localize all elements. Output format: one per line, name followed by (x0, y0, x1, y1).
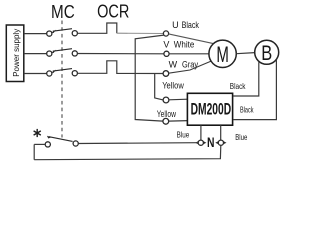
svg-text:MC: MC (51, 2, 75, 22)
MC contact pole 1 (47, 29, 78, 36)
wire phase T from supply (24, 73, 47, 75)
svg-text:Power supply: Power supply (12, 29, 21, 77)
wire row 2 to V terminal (78, 53, 164, 55)
svg-text:Blue: Blue (177, 129, 190, 139)
svg-text:W: W (169, 60, 178, 70)
module output stub left (Blue) (200, 125, 202, 140)
terminal Yellow 1 (163, 97, 169, 103)
wire B left terminal down to module (Black) (233, 62, 259, 96)
motor M (209, 40, 236, 67)
rectifier module DM200D (187, 93, 232, 125)
wire switch left to loop (34, 143, 45, 145)
svg-text:Black: Black (240, 105, 254, 115)
wire U to motor (169, 34, 215, 44)
asterisk mark (34, 129, 41, 137)
svg-text:White: White (174, 40, 195, 50)
terminal Yellow 2 (163, 118, 169, 124)
svg-text:N: N (207, 134, 215, 150)
wire V to motor (169, 53, 209, 55)
wire row 1 to U terminal (117, 32, 164, 34)
OCR heater element row 1 (78, 23, 117, 33)
bottom rail (34, 145, 221, 159)
module output stub right (Blue) (220, 125, 222, 140)
left loop down (33, 144, 35, 159)
MC contact pole 3 (47, 69, 78, 77)
wire switch right to connector (Blue) (78, 142, 198, 145)
svg-text:Yellow: Yellow (157, 109, 176, 119)
MC contact pole 2 (47, 49, 78, 57)
svg-text:U: U (172, 20, 179, 30)
svg-text:Yellow: Yellow (162, 80, 184, 90)
wire Yellow1 to module (169, 98, 188, 101)
dashed mechanical link of MC (61, 21, 63, 138)
wire phase S from supply (24, 53, 47, 55)
svg-text:M: M (216, 42, 229, 67)
bus from U down to Yellow 2 (135, 35, 164, 121)
svg-text:Black: Black (230, 81, 246, 91)
svg-text:OCR: OCR (97, 1, 129, 21)
brake release switch (45, 136, 78, 147)
svg-text:DM200D: DM200D (191, 100, 232, 119)
svg-text:B: B (261, 42, 272, 65)
OCR heater element row 3 (78, 61, 164, 74)
wire B right terminal down to module (Black) (233, 60, 276, 120)
wire M to B (236, 53, 255, 54)
wire phase R from supply (24, 33, 47, 35)
svg-text:Gray: Gray (182, 60, 199, 70)
brake B (255, 40, 279, 64)
terminal W (163, 71, 169, 77)
branch from W down to Yellow 1 (155, 73, 163, 100)
svg-text:Blue: Blue (235, 132, 247, 142)
connector left (195, 140, 206, 145)
terminal V (164, 51, 169, 56)
power supply box (6, 25, 24, 82)
svg-text:Black: Black (182, 20, 200, 30)
wire W to motor (169, 61, 212, 73)
svg-text:V: V (163, 39, 169, 49)
terminal U (163, 31, 168, 36)
connector right (215, 140, 226, 145)
wire Yellow2 to module (169, 120, 188, 123)
